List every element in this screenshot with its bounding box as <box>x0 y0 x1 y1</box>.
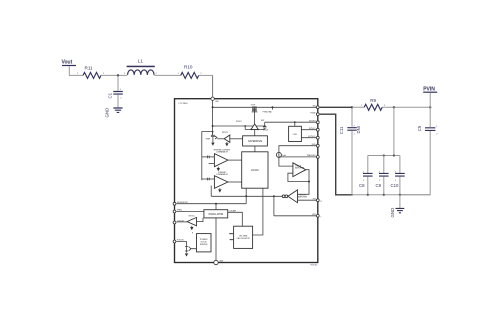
pin SW top <box>211 97 214 100</box>
box GATEDRIVE <box>243 136 268 146</box>
pin RUN <box>316 144 319 147</box>
node Vout terminal <box>62 60 77 67</box>
svg-text:INTVCC: INTVCC <box>222 132 229 134</box>
svg-text:GND: GND <box>219 261 224 263</box>
wire LDO to EXTVCC pin <box>301 137 317 139</box>
op-amp error amplifier <box>282 190 318 203</box>
capacitor C10 <box>391 156 405 195</box>
node driver branch dot <box>244 125 246 127</box>
svg-text:DNI: DNI <box>356 126 361 133</box>
node R9 output junction <box>393 106 395 108</box>
wire R9 branch down to cap rail <box>393 107 395 155</box>
regulator LDO box <box>289 126 302 141</box>
wire MODE/SYNC rail <box>176 203 246 205</box>
node rail dot A <box>245 195 247 197</box>
resistor R9 <box>352 98 430 111</box>
pin TRACK/SS <box>316 156 319 159</box>
inductor L1 <box>124 59 158 75</box>
node junction C1 tap <box>117 74 119 76</box>
svg-text:C8: C8 <box>359 183 365 188</box>
wire junction to C1 <box>117 75 119 90</box>
wire internal spine from SW pin <box>212 99 214 135</box>
wire cap top rail <box>368 155 400 157</box>
svg-text:PGND: PGND <box>310 112 316 114</box>
svg-text:INTVCC: INTVCC <box>189 216 196 218</box>
node mode rail dot <box>215 203 217 205</box>
pin GND bottom <box>214 260 218 264</box>
svg-text:GND: GND <box>105 108 110 118</box>
capacitor C1 <box>108 89 123 99</box>
wire UVLO rail left <box>202 132 213 181</box>
op-amp CLKOUT buffer <box>176 216 203 231</box>
wire osc top riser <box>215 204 217 210</box>
wire GND stub <box>399 195 401 208</box>
svg-text:C1: C1 <box>108 92 113 98</box>
wire R10 to SW pin <box>199 74 213 76</box>
pin BOOST <box>316 121 319 124</box>
resistor R10 <box>178 65 203 79</box>
svg-text:Vout: Vout <box>62 60 73 66</box>
node PVIN terminal <box>423 87 437 108</box>
svg-text:C9: C9 <box>376 183 382 188</box>
svg-text:7: 7 <box>320 217 321 219</box>
wire LOGIC to on-time calculator <box>253 188 263 235</box>
node C11 top junction <box>351 106 353 108</box>
op-amp track amplifier <box>288 163 310 195</box>
wire internal VIN rail <box>213 106 318 108</box>
wire GATEDRIVE to LOGIC <box>254 146 256 152</box>
pin VIN <box>316 106 319 109</box>
wire TRACK/SS net <box>279 157 318 166</box>
wire R11 to L1 <box>101 74 127 76</box>
node LDO tap <box>294 121 296 123</box>
pin labels left edge <box>177 202 224 263</box>
svg-text:C5: C5 <box>417 125 422 131</box>
svg-text:BST: BST <box>261 120 264 122</box>
wire comparator feedback rail <box>211 195 282 197</box>
svg-text:AMPLIFIER: AMPLIFIER <box>298 196 308 199</box>
ground GND (output cap) <box>105 108 123 118</box>
op-amp current comparator <box>202 172 242 196</box>
resistor R11 <box>77 66 105 79</box>
svg-text:SW: SW <box>215 101 218 103</box>
wire FREQ pin to oscillator <box>176 211 204 213</box>
wire L1 to R10 <box>154 74 181 76</box>
wire LOGIC bottom stub <box>245 188 247 196</box>
svg-text:COMPARATOR: COMPARATOR <box>216 151 229 154</box>
svg-text:TRACK/SS: TRACK/SS <box>307 154 317 157</box>
node rail dot B <box>273 195 275 197</box>
pin VFB <box>316 214 319 217</box>
svg-text:LOGIC: LOGIC <box>251 168 259 172</box>
node spine dot 1 <box>212 106 214 108</box>
svg-text:MODE/SYNC: MODE/SYNC <box>177 202 189 204</box>
wire FB riser <box>274 196 318 216</box>
op-amp reverse current comparator <box>202 150 242 172</box>
svg-text:LTC7803: LTC7803 <box>179 103 189 105</box>
wire driver input rail <box>213 125 265 127</box>
svg-text:INTVCC: INTVCC <box>309 128 316 130</box>
wire Vout to R11 <box>69 66 83 75</box>
wire LDO to INTVCC pin <box>301 129 317 131</box>
wire LDO top <box>294 122 296 126</box>
pin numbers outside <box>320 201 322 219</box>
pin CLKOUT <box>173 221 176 224</box>
svg-text:R10: R10 <box>184 65 193 70</box>
capacitor boost internal <box>261 120 268 131</box>
svg-text:GATEDRIVE: GATEDRIVE <box>248 140 263 143</box>
IC U1 outline <box>175 99 318 263</box>
wire oscillator to on-time calc <box>228 212 243 226</box>
node rail dots <box>383 154 385 156</box>
wire BOOST pin rail <box>265 121 318 123</box>
svg-text:C10: C10 <box>391 183 399 188</box>
svg-text:L1: L1 <box>138 59 144 64</box>
capacitor C9 <box>376 156 389 195</box>
op-amp driver triangle (gate driver) <box>251 124 258 129</box>
node bottom rail dots <box>367 194 369 196</box>
pin labels right edge <box>307 105 317 215</box>
svg-text:LDO: LDO <box>293 134 298 136</box>
svg-text:R9: R9 <box>370 98 376 103</box>
wire x246 riser <box>245 196 247 203</box>
capacitor C5 <box>400 107 438 195</box>
box LOGIC <box>242 152 268 188</box>
wire driver to gatedrive <box>254 129 256 135</box>
node spine dot 2 <box>212 125 214 127</box>
node PGND PAD tap <box>272 106 274 108</box>
pin ITH <box>316 199 319 202</box>
op-amp UVLO comparator <box>217 132 242 147</box>
svg-text:EXTVCC: EXTVCC <box>308 136 316 138</box>
ground GND (input caps) <box>390 208 404 218</box>
capacitor C11 (DNI) <box>339 107 361 195</box>
pin PGND <box>316 113 319 116</box>
wire PGND pin down and around (thick) <box>320 114 353 195</box>
capacitor C8 <box>359 156 373 195</box>
pin EXTVCC <box>316 136 319 139</box>
node spine dot 3 <box>212 131 214 133</box>
svg-text:AMPLIFIER: AMPLIFIER <box>295 167 305 170</box>
svg-text:GND: GND <box>390 208 395 218</box>
pin MODE/SYNC <box>173 202 176 205</box>
wire oscillator bottom riser to GND pin <box>215 218 217 261</box>
transistor VTOP <box>251 104 258 124</box>
svg-text:CLKOUT: CLKOUT <box>177 221 185 223</box>
svg-text:OSCILLATOR: OSCILLATOR <box>208 213 223 216</box>
svg-text:FREQ: FREQ <box>177 210 183 212</box>
svg-text:STATUS: STATUS <box>200 243 208 246</box>
svg-text:7803 BD: 7803 BD <box>310 265 318 267</box>
pin circles <box>173 97 319 265</box>
svg-text:VREF: VREF <box>206 138 211 140</box>
box ON-TIME CALCULATOR <box>229 226 253 248</box>
svg-text:C11: C11 <box>339 126 344 134</box>
svg-text:R11: R11 <box>85 66 94 71</box>
svg-text:COMPARATOR: COMPARATOR <box>216 173 229 176</box>
svg-text:PGOOD: PGOOD <box>177 240 184 242</box>
svg-text:BOOST: BOOST <box>309 120 316 122</box>
svg-text:PGND PAD: PGND PAD <box>263 111 273 114</box>
svg-text:INTVCC: INTVCC <box>236 121 243 123</box>
svg-text:RUN: RUN <box>312 144 317 146</box>
node PVIN junction <box>429 106 431 108</box>
svg-text:11: 11 <box>320 201 322 203</box>
wire cap bottom rail <box>352 194 430 196</box>
pin INTVCC <box>316 128 319 131</box>
svg-text:0.01µF: 0.01µF <box>263 129 268 131</box>
wire driver base branch <box>245 126 265 129</box>
box OSCILLATOR <box>204 210 228 218</box>
svg-text:CALCULATOR: CALCULATOR <box>236 237 250 240</box>
current source 5uA <box>276 146 317 158</box>
wire C1 to GND <box>117 95 119 108</box>
transistor PGOOD pulldown <box>176 232 196 256</box>
transistor VREF sense <box>206 132 217 146</box>
box POWER GOOD STATUS <box>197 234 212 252</box>
pin PGOOD <box>173 240 176 243</box>
wire VIN pin to R9 (thick) <box>320 106 352 108</box>
pin FREQ <box>173 210 176 213</box>
